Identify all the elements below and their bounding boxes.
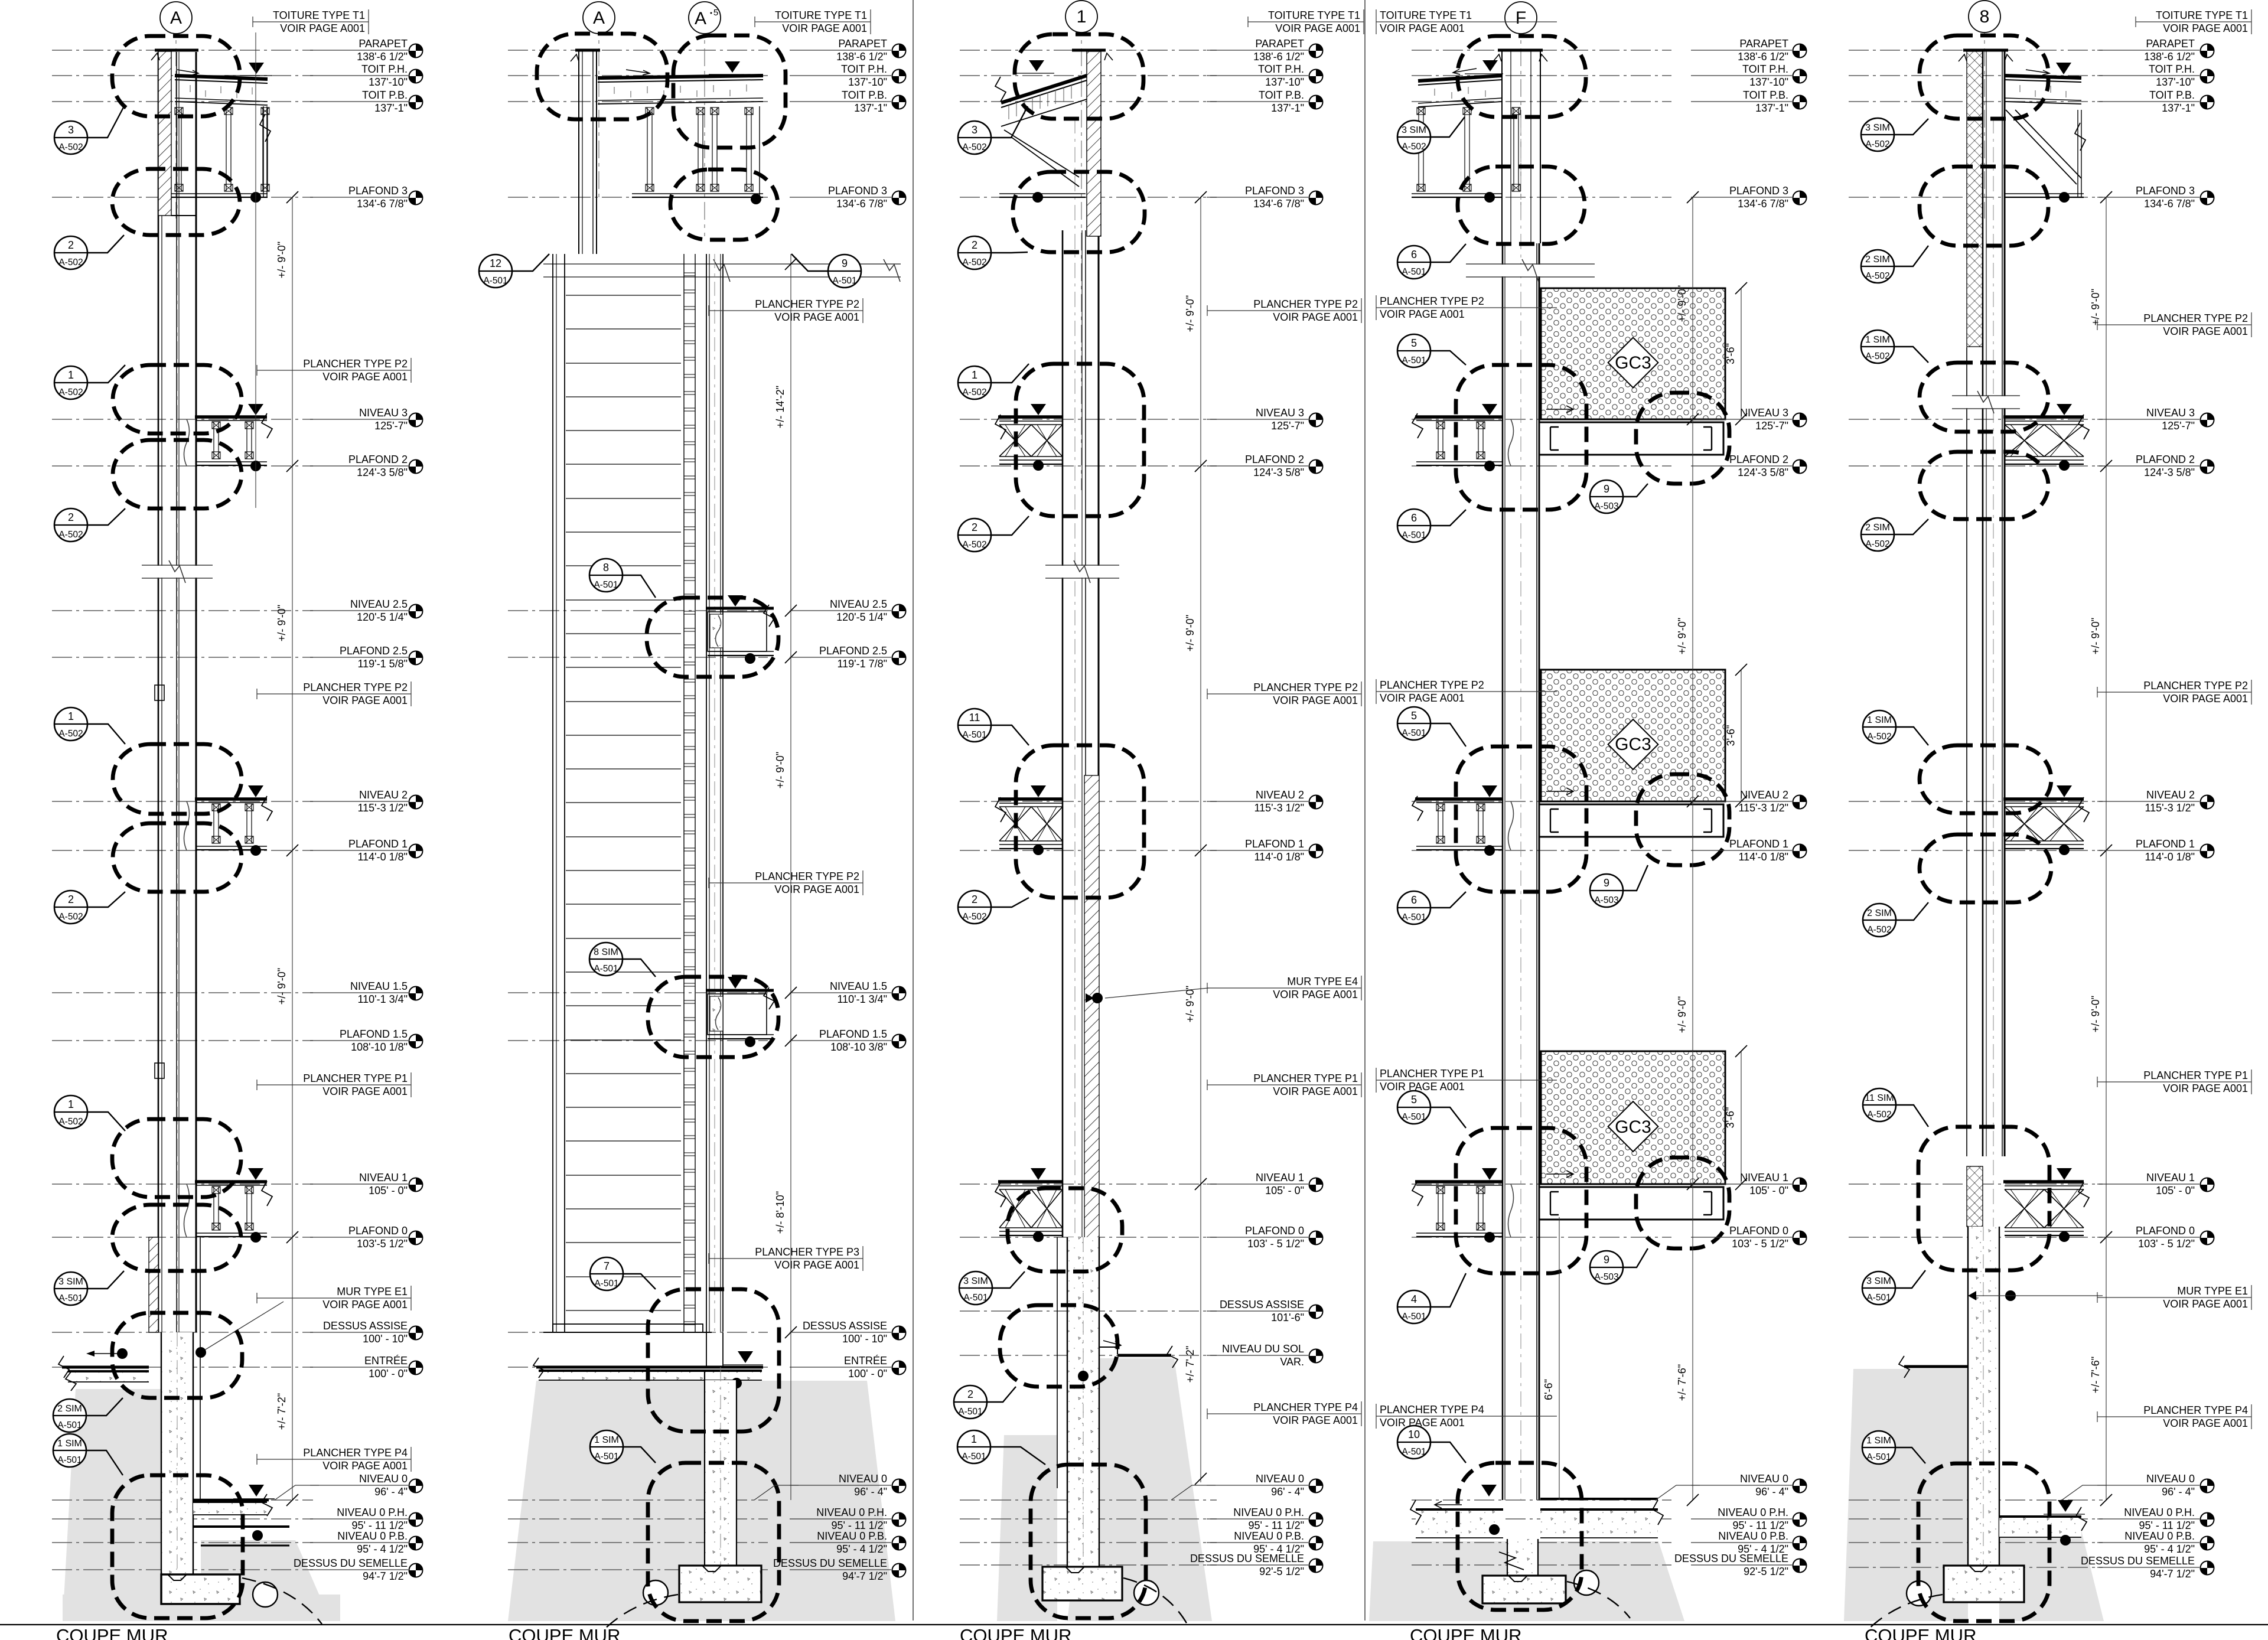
drain pipe [1907, 1581, 1931, 1606]
svg-text:+/- 9'-0": +/- 9'-0" [774, 752, 786, 788]
grid line 8 [1984, 18, 1985, 219]
svg-text:NIVEAU 0 P.B.: NIVEAU 0 P.B. [337, 1530, 408, 1542]
callout box [1015, 34, 1143, 119]
svg-text:125'-7": 125'-7" [1271, 420, 1304, 432]
detail callout 8 SIM/A-501 [589, 943, 656, 977]
level line [52, 1183, 313, 1185]
detail callout 3/A-502 [54, 106, 124, 154]
drain pipe [1574, 1570, 1599, 1595]
footing [161, 1574, 240, 1604]
level line [52, 1518, 313, 1520]
callout box [1031, 1465, 1146, 1618]
callout box [1920, 35, 2048, 119]
svg-text:NIVEAU 3: NIVEAU 3 [1740, 407, 1788, 419]
level line [1412, 465, 1671, 467]
level line [52, 801, 313, 802]
svg-text:PLAFOND 2: PLAFOND 2 [1245, 454, 1304, 465]
roof assembly [2005, 76, 2081, 78]
svg-text:TOITURE TYPE T1: TOITURE TYPE T1 [1268, 9, 1360, 21]
svg-text:VOIR PAGE A001: VOIR PAGE A001 [1273, 311, 1358, 323]
svg-text:MUR TYPE E1: MUR TYPE E1 [2177, 1285, 2248, 1297]
callout box [1000, 1305, 1117, 1387]
svg-text:1 SIM: 1 SIM [1866, 1436, 1891, 1446]
svg-text:NIVEAU 0 P.B.: NIVEAU 0 P.B. [1718, 1530, 1788, 1542]
callout box [1920, 363, 2048, 432]
svg-text:NIVEAU 0 P.B.: NIVEAU 0 P.B. [2124, 1530, 2195, 1542]
svg-text:A-501: A-501 [958, 1407, 982, 1417]
svg-text:A-503: A-503 [1594, 895, 1618, 905]
svg-text:92'-5 1/2": 92'-5 1/2" [1744, 1566, 1788, 1577]
callout box [1008, 1188, 1122, 1271]
callout box [112, 1313, 242, 1398]
detail callout 3 SIM/A-502 [1397, 117, 1465, 154]
level line [960, 801, 1217, 802]
svg-text:VOIR PAGE A001: VOIR PAGE A001 [322, 1085, 408, 1097]
svg-text:A-502: A-502 [962, 387, 986, 397]
svg-text:PLAFOND 1.5: PLAFOND 1.5 [340, 1028, 408, 1040]
svg-text:DESSUS DU SEMELLE: DESSUS DU SEMELLE [1190, 1553, 1304, 1564]
grid bubble 8 [1969, 1, 2000, 32]
svg-text:119'-1 7/8": 119'-1 7/8" [837, 658, 887, 670]
grid bubble A [160, 2, 192, 34]
callout box [1636, 1158, 1729, 1248]
svg-text:9: 9 [842, 257, 848, 269]
level line [1412, 75, 1671, 76]
detail callout 5/A-501 [1397, 707, 1466, 746]
svg-text:+/- 9'-0": +/- 9'-0" [276, 242, 288, 278]
svg-text:VOIR PAGE A001: VOIR PAGE A001 [774, 883, 859, 895]
stair landing [706, 989, 774, 992]
dim line panel5 [2106, 197, 2107, 1500]
callout box [1918, 1463, 2049, 1621]
level line [960, 1310, 1217, 1312]
terrain gray left [1844, 1369, 1968, 1621]
svg-text:+/- 9'-0": +/- 9'-0" [276, 605, 288, 641]
detail callout 1 SIM/A-502 [1863, 710, 1928, 745]
grade left [1904, 1365, 1967, 1368]
svg-text:+/- 7'-6": +/- 7'-6" [2090, 1357, 2101, 1393]
wall break [1952, 395, 2020, 396]
level line [960, 1499, 1217, 1501]
svg-text:2: 2 [68, 894, 74, 905]
drain pipe [1134, 1580, 1159, 1605]
svg-text:PLAFOND 2: PLAFOND 2 [348, 454, 408, 465]
svg-text:A: A [170, 8, 182, 28]
3'-6" dim [1741, 670, 1742, 801]
level line [1412, 1237, 1671, 1238]
detail callout 9/A-503 [1590, 1248, 1648, 1284]
detail callout 3 SIM/A-501 [959, 1271, 1025, 1305]
level line [1412, 1542, 1671, 1543]
svg-text:94'-7 1/2": 94'-7 1/2" [842, 1570, 887, 1582]
callout box [1918, 1127, 2049, 1270]
dim line panel1 [255, 32, 256, 508]
level line [1849, 1183, 2103, 1185]
svg-text:+/- 9'-0": +/- 9'-0" [2090, 289, 2101, 325]
3'-6" dim [1741, 1051, 1742, 1184]
svg-text:3'-6": 3'-6" [1725, 1107, 1736, 1129]
terrain gray right [1999, 1531, 2104, 1621]
svg-text:VOIR PAGE A001: VOIR PAGE A001 [2163, 1083, 2248, 1094]
svg-text:+/- 9'-0": +/- 9'-0" [276, 968, 288, 1005]
wall panel1 [158, 52, 159, 1332]
detail callout 3 SIM/A-501 [1862, 1270, 1925, 1305]
svg-text:NIVEAU 3: NIVEAU 3 [1256, 407, 1304, 419]
sloped roof left [1001, 76, 1087, 103]
svg-text:COUPE MUR: COUPE MUR [56, 1625, 168, 1640]
svg-text:1 SIM: 1 SIM [1865, 335, 1890, 345]
3'-6" dim [1741, 288, 1742, 419]
callout box [113, 365, 242, 433]
level line [508, 1499, 768, 1501]
svg-text:108'-10 3/8": 108'-10 3/8" [830, 1041, 887, 1053]
svg-text:8 SIM: 8 SIM [594, 947, 618, 957]
svg-text:137'-10": 137'-10" [848, 76, 887, 88]
detail callout 2 SIM/A-501 [53, 1398, 123, 1432]
detail callout 3 SIM/A-501 [54, 1271, 124, 1305]
svg-text:96' - 4": 96' - 4" [2162, 1486, 2195, 1498]
svg-text:A: A [695, 9, 706, 28]
level line [960, 850, 1217, 851]
svg-text:NIVEAU 0: NIVEAU 0 [1256, 1473, 1304, 1485]
svg-text:8: 8 [1980, 7, 1990, 27]
svg-text:2 SIM: 2 SIM [1865, 523, 1890, 533]
svg-text:PLAFOND 0: PLAFOND 0 [2136, 1225, 2195, 1237]
svg-text:A-502: A-502 [58, 387, 83, 397]
detail callout 2 SIM/A-502 [1861, 518, 1928, 551]
svg-text:124'-3 5/8": 124'-3 5/8" [1738, 467, 1788, 478]
parapet [1963, 49, 2008, 52]
GC3 panel [1541, 670, 1725, 801]
svg-text:134'-6 7/8": 134'-6 7/8" [836, 198, 887, 210]
svg-text:1 SIM: 1 SIM [594, 1435, 619, 1445]
svg-text:NIVEAU 0 P.B.: NIVEAU 0 P.B. [1234, 1530, 1304, 1542]
level line [1849, 850, 2103, 851]
svg-text:96' - 4": 96' - 4" [1755, 1486, 1788, 1498]
floor truss band [2003, 797, 2084, 801]
level line [508, 50, 768, 51]
svg-text:108'-10 1/8": 108'-10 1/8" [351, 1041, 408, 1053]
svg-text:5: 5 [1411, 1094, 1417, 1106]
svg-text:VOIR PAGE A001: VOIR PAGE A001 [1380, 308, 1465, 320]
svg-text:103' - 5 1/2": 103' - 5 1/2" [1732, 1238, 1788, 1250]
svg-text:1: 1 [68, 369, 74, 381]
svg-text:VOIR PAGE A001: VOIR PAGE A001 [322, 371, 408, 383]
svg-text:A-502: A-502 [962, 540, 986, 550]
svg-text:A-502: A-502 [58, 257, 83, 268]
svg-text:TOIT P.H.: TOIT P.H. [1742, 63, 1788, 75]
svg-text:TOITURE TYPE T1: TOITURE TYPE T1 [273, 9, 365, 21]
svg-text:A-502: A-502 [962, 142, 986, 152]
svg-text:DESSUS DU SEMELLE: DESSUS DU SEMELLE [2081, 1555, 2195, 1567]
svg-text:A-502: A-502 [1865, 351, 1889, 361]
detail callout 11/A-501 [958, 709, 1029, 745]
grid line A [598, 18, 599, 201]
detail callout 12/A-501 [479, 254, 549, 288]
svg-text:TOIT P.H.: TOIT P.H. [841, 63, 887, 75]
svg-text:A-501: A-501 [57, 1455, 82, 1465]
callout box [648, 977, 778, 1057]
svg-text:+/- 14'-2": +/- 14'-2" [774, 386, 786, 428]
grid bubble F [1505, 2, 1537, 34]
parapet [158, 51, 171, 216]
level line [1849, 1499, 2103, 1501]
panel divider [913, 0, 914, 1621]
callout box [113, 823, 242, 892]
svg-text:NIVEAU 0 P.H.: NIVEAU 0 P.H. [1718, 1507, 1788, 1518]
terrain gray [508, 1381, 895, 1621]
svg-text:96' - 4": 96' - 4" [374, 1486, 408, 1498]
svg-text:TOIT P.H.: TOIT P.H. [361, 63, 408, 75]
svg-text:+/- 9'-0": +/- 9'-0" [1676, 618, 1688, 654]
detail callout 9/A-501 [791, 254, 861, 288]
svg-text:2: 2 [967, 1388, 973, 1400]
svg-text:VOIR PAGE A001: VOIR PAGE A001 [1380, 22, 1465, 34]
svg-text:A-501: A-501 [1402, 1312, 1426, 1322]
svg-text:94'-7 1/2": 94'-7 1/2" [2150, 1568, 2195, 1580]
svg-text:95' - 4 1/2": 95' - 4 1/2" [357, 1543, 408, 1555]
svg-text:GC3: GC3 [1615, 1117, 1651, 1137]
floor band [195, 415, 267, 419]
level line [52, 465, 313, 467]
detail callout 1/A-502 [54, 707, 125, 744]
level line [960, 1355, 1217, 1356]
svg-text:VOIR PAGE A001: VOIR PAGE A001 [2163, 325, 2248, 337]
level line [508, 101, 768, 102]
detail callout 5/A-501 [1397, 1091, 1466, 1128]
svg-text:PLAFOND 2.5: PLAFOND 2.5 [340, 645, 408, 657]
foundation panel4 [1507, 1539, 1538, 1576]
footing [1042, 1567, 1122, 1600]
svg-text:F: F [1516, 8, 1526, 28]
level line [960, 1237, 1217, 1238]
svg-text:VOIR PAGE A001: VOIR PAGE A001 [2163, 1417, 2248, 1429]
svg-text:134'-6 7/8": 134'-6 7/8" [1253, 198, 1304, 210]
detail callout 2/A-502 [54, 235, 124, 269]
level line [1849, 1567, 2103, 1568]
svg-text:A-502: A-502 [58, 1117, 83, 1127]
level line [52, 101, 313, 102]
svg-text:DESSUS ASSISE: DESSUS ASSISE [803, 1320, 887, 1332]
svg-text:A-501: A-501 [962, 1452, 986, 1462]
level line [508, 1332, 768, 1333]
svg-text:101'-6": 101'-6" [1271, 1312, 1304, 1323]
svg-text:9: 9 [1604, 483, 1609, 495]
svg-text:MUR TYPE E4: MUR TYPE E4 [1287, 976, 1358, 987]
svg-text:PLANCHER TYPE P4: PLANCHER TYPE P4 [303, 1447, 408, 1459]
level line [1849, 801, 2103, 802]
detail callout 10/A-501 [1397, 1426, 1466, 1463]
svg-text:7: 7 [604, 1260, 610, 1272]
floor band [1415, 415, 1502, 419]
svg-text:137'-1": 137'-1" [1755, 102, 1788, 114]
svg-text:3 SIM: 3 SIM [1866, 1276, 1891, 1286]
svg-text:NIVEAU 0 P.B.: NIVEAU 0 P.B. [817, 1530, 887, 1542]
svg-text:A-503: A-503 [1594, 1272, 1618, 1282]
svg-text:PLANCHER TYPE P4: PLANCHER TYPE P4 [2143, 1404, 2248, 1416]
level line [960, 1183, 1217, 1185]
level line [508, 75, 768, 76]
svg-text:105' - 0": 105' - 0" [1749, 1185, 1788, 1196]
svg-text:9: 9 [1604, 877, 1609, 889]
svg-text:NIVEAU 1: NIVEAU 1 [2146, 1172, 2195, 1183]
detail callout 1/A-502 [54, 1095, 125, 1131]
svg-text:+/- 9'-0": +/- 9'-0" [1676, 285, 1688, 322]
dim lines panel4 [1692, 197, 1693, 1500]
drain pipe [643, 1580, 668, 1605]
parapet [1087, 51, 1101, 236]
svg-text:PLANCHER TYPE P4: PLANCHER TYPE P4 [1380, 1404, 1484, 1416]
svg-text:TOITURE TYPE T1: TOITURE TYPE T1 [775, 9, 867, 21]
detail callout 1 SIM/A-501 [53, 1434, 123, 1475]
level line [1849, 101, 2103, 102]
svg-text:NIVEAU 0: NIVEAU 0 [2146, 1473, 2195, 1485]
svg-text:A-501: A-501 [483, 276, 507, 286]
svg-text:PLAFOND 1: PLAFOND 1 [348, 838, 408, 850]
floor truss band [2003, 415, 2084, 419]
svg-text:+/- 9'-0": +/- 9'-0" [1184, 295, 1196, 332]
foundation panel5 [1968, 1227, 1999, 1566]
svg-text:A-501: A-501 [1402, 728, 1426, 738]
svg-text:DESSUS ASSISE: DESSUS ASSISE [323, 1320, 408, 1332]
wall break [142, 565, 213, 566]
svg-text:95' - 4 1/2": 95' - 4 1/2" [2144, 1543, 2195, 1555]
svg-text:TOIT P.B.: TOIT P.B. [362, 89, 408, 101]
svg-text:+/- 8'-10": +/- 8'-10" [774, 1191, 786, 1234]
svg-text:A-502: A-502 [58, 912, 83, 922]
dim line panel2 [790, 254, 791, 1500]
svg-text:103'-5 1/2": 103'-5 1/2" [357, 1238, 408, 1250]
svg-text:NIVEAU 1: NIVEAU 1 [1740, 1172, 1788, 1183]
svg-text:3 SIM: 3 SIM [58, 1277, 83, 1287]
parapet [1498, 49, 1543, 52]
floor band [195, 1180, 267, 1183]
detail callout 2/A-502 [54, 891, 125, 924]
svg-text:A-501: A-501 [1402, 356, 1426, 366]
svg-text:1: 1 [971, 1433, 977, 1445]
svg-text:3: 3 [972, 124, 977, 136]
svg-text:A-501: A-501 [1402, 530, 1426, 540]
level line [508, 1367, 768, 1368]
callout box [1920, 834, 2051, 902]
svg-text:A-502: A-502 [1865, 539, 1889, 549]
svg-text:PLANCHER TYPE P2: PLANCHER TYPE P2 [2143, 680, 2248, 692]
callout box [1920, 452, 2048, 519]
svg-text:2 SIM: 2 SIM [1867, 908, 1892, 918]
spandrel beam [1539, 804, 1723, 837]
svg-text:115'-3 1/2": 115'-3 1/2" [1254, 802, 1304, 814]
svg-text:NIVEAU DU SOL: NIVEAU DU SOL [1222, 1343, 1304, 1355]
svg-text:137'-10": 137'-10" [369, 76, 408, 88]
svg-text:A-501: A-501 [1402, 267, 1426, 277]
svg-text:PLAFOND 3: PLAFOND 3 [2136, 185, 2195, 197]
svg-text:134'-6 7/8": 134'-6 7/8" [1738, 198, 1788, 210]
detail callout 2/A-502 [958, 891, 1029, 924]
callout box [648, 1289, 779, 1432]
panel divider [1364, 0, 1366, 1621]
svg-text:138'-6 1/2": 138'-6 1/2" [1253, 51, 1304, 63]
wall break [1466, 263, 1595, 265]
svg-text:100' - 0": 100' - 0" [369, 1368, 408, 1380]
svg-text:NIVEAU 0 P.H.: NIVEAU 0 P.H. [1233, 1507, 1304, 1518]
svg-text:NIVEAU 0 P.H.: NIVEAU 0 P.H. [2124, 1507, 2195, 1518]
svg-text:PLAFOND 2.5: PLAFOND 2.5 [819, 645, 887, 657]
svg-text:114'-0 1/8": 114'-0 1/8" [1254, 851, 1304, 863]
svg-text:92'-5 1/2": 92'-5 1/2" [1259, 1566, 1304, 1577]
svg-text:105' - 0": 105' - 0" [2156, 1185, 2195, 1196]
svg-text:PLANCHER TYPE P1: PLANCHER TYPE P1 [1253, 1072, 1358, 1084]
svg-text:PLAFOND 3: PLAFOND 3 [1729, 185, 1788, 197]
detail callout 1 SIM/A-501 [590, 1430, 656, 1463]
svg-text:NIVEAU 3: NIVEAU 3 [2146, 407, 2195, 419]
svg-text:+/- 9'-0": +/- 9'-0" [2090, 618, 2101, 654]
svg-text:3'-6": 3'-6" [1725, 725, 1737, 746]
detail callout 7/A-501 [590, 1257, 656, 1290]
footing [679, 1566, 761, 1602]
svg-text:A-502: A-502 [962, 912, 986, 922]
svg-text:A-502: A-502 [1402, 142, 1426, 152]
entree slab [536, 1366, 763, 1369]
detail callout 9/A-503 [1590, 480, 1648, 513]
level line [52, 1499, 313, 1501]
svg-text:125'-7": 125'-7" [374, 420, 408, 432]
right wall [706, 254, 707, 1332]
callout box [1456, 746, 1586, 892]
callout box [1013, 172, 1145, 252]
svg-text:VOIR PAGE A001: VOIR PAGE A001 [322, 1460, 408, 1472]
svg-text:134'-6 7/8": 134'-6 7/8" [357, 198, 408, 210]
svg-text:PLANCHER TYPE P2: PLANCHER TYPE P2 [2143, 312, 2248, 324]
svg-text:PLAFOND 0: PLAFOND 0 [348, 1225, 408, 1237]
svg-text:PLANCHER TYPE P1: PLANCHER TYPE P1 [2143, 1070, 2248, 1081]
callout box [647, 598, 778, 677]
svg-text:PLANCHER TYPE P2: PLANCHER TYPE P2 [1380, 295, 1484, 307]
right slab [1999, 1517, 2081, 1537]
below-grade hatch strip [1084, 775, 1099, 1311]
sill at assise [553, 1324, 703, 1332]
level line [1412, 801, 1671, 802]
terrain gray [1067, 1358, 1212, 1621]
svg-text:TOITURE TYPE T1: TOITURE TYPE T1 [2156, 9, 2248, 21]
svg-text:11: 11 [969, 712, 980, 723]
svg-text:120'-5 1/4": 120'-5 1/4" [357, 611, 408, 623]
svg-text:PARAPET: PARAPET [359, 38, 408, 50]
detail callout 1 SIM/A-502 [1861, 330, 1928, 363]
svg-text:124'-3 5/8": 124'-3 5/8" [2144, 467, 2195, 478]
svg-text:NIVEAU 1: NIVEAU 1 [1256, 1172, 1304, 1183]
level line [960, 75, 1217, 76]
roof assembly [175, 76, 268, 79]
svg-text:VOIR PAGE A001: VOIR PAGE A001 [2163, 693, 2248, 705]
svg-text:125'-7": 125'-7" [2162, 420, 2195, 432]
svg-text:5: 5 [1411, 710, 1417, 722]
svg-text:A-502: A-502 [1865, 139, 1889, 149]
svg-text:100' - 0": 100' - 0" [848, 1368, 887, 1380]
svg-text:PLANCHER TYPE P3: PLANCHER TYPE P3 [755, 1246, 859, 1258]
svg-text:137'-1": 137'-1" [2162, 102, 2195, 114]
foundation wall [705, 1380, 737, 1566]
grade step right [1099, 1346, 1117, 1348]
svg-text:PLAFOND 3: PLAFOND 3 [348, 185, 408, 197]
svg-text:NIVEAU 0: NIVEAU 0 [1740, 1473, 1788, 1485]
terrain gray left [63, 1389, 161, 1621]
detail callout 9/A-503 [1590, 865, 1648, 907]
svg-text:A-502: A-502 [1867, 732, 1891, 742]
svg-text:3'-6": 3'-6" [1725, 343, 1736, 364]
detail callout 6/A-501 [1397, 509, 1466, 542]
svg-text:PLANCHER TYPE P2: PLANCHER TYPE P2 [1380, 679, 1484, 691]
svg-text:PLANCHER TYPE P2: PLANCHER TYPE P2 [303, 682, 408, 693]
